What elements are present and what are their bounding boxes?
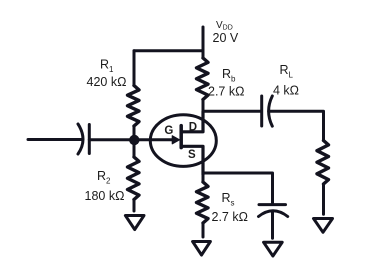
wire drain junction to output cap <box>203 110 261 113</box>
wire RL bottom <box>322 184 325 214</box>
capacitor Cs bypass curved plate <box>259 211 288 217</box>
wire R2 bottom <box>133 200 136 212</box>
transistor Q1 drain lead <box>181 112 203 132</box>
wire source to bypass cap branch <box>203 173 273 203</box>
ground below R2 <box>125 216 144 230</box>
wire Rs top stub <box>202 173 205 182</box>
resistor R1 <box>128 86 140 127</box>
svg-text:Rb: Rb <box>222 67 236 84</box>
resistor R2 <box>128 157 140 200</box>
svg-text:RL: RL <box>280 63 294 80</box>
ground below Rs <box>193 242 211 256</box>
svg-text:20 V: 20 V <box>213 31 239 45</box>
wire R1 top stub <box>133 51 136 86</box>
svg-text:G: G <box>164 125 173 137</box>
svg-text:D: D <box>189 121 197 133</box>
svg-text:VDD: VDD <box>216 20 233 32</box>
svg-text:420 kΩ: 420 kΩ <box>87 75 127 89</box>
svg-text:S: S <box>188 149 196 161</box>
wire R2 top stub <box>133 140 136 157</box>
wire top horizontal to R1 branch <box>134 49 203 52</box>
svg-text:180 kΩ: 180 kΩ <box>85 189 125 203</box>
capacitor C2 output coupling curved plate <box>269 96 273 126</box>
resistor Rb <box>197 58 209 100</box>
wire bypass cap to ground <box>271 213 274 239</box>
op transistor Q1 ellipse <box>150 115 216 167</box>
wire VDD supply vertical <box>202 27 205 58</box>
wire input left <box>28 138 83 141</box>
capacitor C1 input coupling straight plate <box>88 125 91 154</box>
capacitor C2 output coupling straight plate <box>260 96 263 126</box>
svg-text:R2: R2 <box>97 169 111 186</box>
capacitor Cs bypass straight plate <box>259 203 286 206</box>
transistor Q1 channel bar <box>179 126 183 148</box>
svg-text:Rs: Rs <box>222 191 235 208</box>
wire Rb bottom to drain junction <box>202 100 205 112</box>
wire Rs bottom <box>202 223 205 237</box>
wire R1 bottom to node <box>133 126 136 140</box>
svg-text:4 kΩ: 4 kΩ <box>273 84 299 98</box>
transistor Q1 gate arrow <box>172 136 179 144</box>
ground below RL <box>314 219 333 233</box>
wire output cap to RL corner <box>269 111 324 140</box>
resistor Rs <box>197 182 209 223</box>
resistor RL <box>317 141 329 185</box>
svg-text:2.7 kΩ: 2.7 kΩ <box>208 85 244 99</box>
node A junction dot <box>129 135 139 145</box>
ground below bypass cap <box>264 242 283 256</box>
wire cap to gate <box>89 138 173 141</box>
capacitor C1 input coupling curved plate <box>78 124 83 154</box>
svg-text:R1: R1 <box>100 58 114 75</box>
transistor Q1 source lead <box>181 146 203 174</box>
svg-text:2.7 kΩ: 2.7 kΩ <box>212 210 248 224</box>
